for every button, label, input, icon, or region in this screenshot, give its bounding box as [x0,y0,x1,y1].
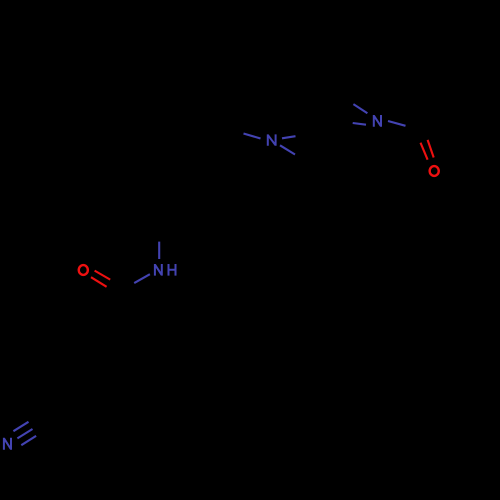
bicyclic N3 label [268,134,276,145]
nitrile N label [4,438,11,450]
amide N label [155,264,162,276]
bond amide N-C(=O) [134,274,150,283]
bond amide N-CH2 (up) [158,242,160,259]
bond N3-CH lower [280,145,295,154]
nitrile triple bond C#N line 3 [21,436,36,445]
nitrile triple bond C#N line 1 [13,422,28,431]
amide O label [79,265,88,275]
bicyclic N8 label [374,115,381,127]
bond N8-CH left [353,123,366,125]
bond N3-CH2 chain [244,134,261,139]
acetyl C=O line 1 [421,143,428,160]
bond N8-C(=O) right [388,121,406,126]
amide C=O line 2 [91,277,107,287]
bond N8-CH upper-left [353,104,367,113]
nitrile triple bond C#N line 2 [17,429,32,438]
acetyl C=O line 2 [428,140,434,158]
bond N3-C bridge [282,136,296,138]
amide H label [168,264,177,276]
acetyl O label [430,166,439,176]
amide C=O line 1 [95,271,111,280]
